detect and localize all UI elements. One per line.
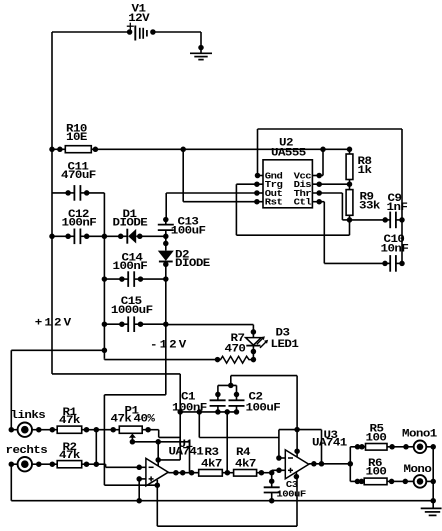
wire ground bottom run (11, 500, 433, 502)
svg-text:47k: 47k (59, 415, 80, 427)
wire R1 to sum (87, 429, 97, 431)
capacitor C11 470uF (52, 192, 68, 194)
capacitor C14 100nF (104, 278, 121, 280)
wire 555 Out to C13 (166, 192, 257, 194)
pin Rst (254, 199, 260, 205)
svg-text:470uF: 470uF (61, 170, 96, 182)
capacitor C10 10nF (382, 261, 388, 267)
svg-text:100: 100 (366, 466, 387, 478)
node links jack (9, 427, 15, 433)
pin Gnd (255, 173, 261, 179)
resistor R9 33k (349, 184, 351, 189)
pin Vcc (316, 173, 322, 179)
wire left cap column (103, 193, 105, 359)
wire battery right (153, 31, 201, 33)
wire 555 top rail (258, 128, 403, 130)
svg-text:33k: 33k (359, 200, 380, 212)
svg-text:links: links (11, 410, 46, 422)
svg-text:Mono1: Mono1 (402, 428, 437, 440)
resistor R1 47k (36, 427, 42, 433)
pin Ctl (316, 199, 322, 205)
resistor R6 100 (350, 480, 357, 482)
svg-text:UA741: UA741 (312, 437, 347, 449)
svg-text:100uF: 100uF (276, 489, 306, 499)
wire top rail riser (230, 376, 232, 386)
wire C15 row to LED (166, 324, 254, 326)
capacitor C2 100uF (234, 392, 240, 398)
wire gnd column to links jack (11, 349, 104, 351)
wire C1C2 top rail (218, 384, 237, 386)
wire P1 wiper feedback (132, 441, 189, 443)
wire links row staircase (148, 429, 159, 431)
svg-text:100uF: 100uF (171, 225, 206, 237)
wire U1 Vminus stub (155, 482, 161, 488)
svg-text:Rst: Rst (265, 197, 283, 207)
capacitor C3 100uF (271, 473, 273, 482)
pin Thr (316, 190, 322, 196)
wire battery left (52, 31, 130, 33)
svg-text:1k: 1k (358, 165, 372, 177)
ground bottom (430, 498, 436, 504)
capacitor C12 100nF (49, 234, 55, 240)
capacitor C9 1nF (350, 219, 386, 221)
capacitor C13 100uF (163, 217, 169, 223)
svg-text:4k7: 4k7 (201, 458, 222, 470)
svg-text:47k: 47k (59, 450, 80, 462)
node Mono jack (392, 480, 406, 482)
diode D2 (165, 236, 167, 243)
wire rechts gnd drop (10, 464, 12, 501)
wire 0V run to R7 (103, 358, 105, 361)
svg-text:Mono: Mono (404, 464, 432, 476)
svg-text:40%: 40% (134, 413, 155, 425)
wire U1 plus input (136, 476, 142, 482)
wire U3 output (309, 463, 351, 465)
wire R4 to U3 plus (261, 472, 271, 474)
wire Thr drop (341, 193, 343, 220)
svg-text:100uF: 100uF (246, 402, 281, 414)
node rechts jack (9, 461, 15, 467)
wire rail branch (198, 412, 200, 438)
battery V1 12V (134, 26, 136, 41)
wire C1C2 bottom rail (177, 409, 183, 415)
wire R9 to Trg loop (349, 220, 351, 235)
svg-text:R3: R3 (205, 447, 219, 459)
wire 555 right riser (401, 129, 403, 263)
svg-text:C3: C3 (286, 480, 298, 490)
wire -12V column (165, 264, 167, 395)
svg-text:1nF: 1nF (387, 202, 408, 214)
svg-text:DIODE: DIODE (175, 258, 210, 270)
wire Rst to rail (182, 149, 184, 201)
svg-text:LED1: LED1 (271, 339, 299, 351)
svg-text:D3: D3 (276, 327, 290, 339)
svg-text:10E: 10E (66, 132, 87, 144)
svg-text:100nF: 100nF (172, 402, 207, 414)
svg-text:Ctl: Ctl (294, 197, 312, 207)
wire Gnd riser (257, 129, 259, 176)
wire U1 output (168, 472, 198, 474)
op-amp U1 UA741 (146, 458, 168, 486)
potentiometer P1 47k 40% (119, 426, 142, 433)
resistor R10 10E (49, 147, 55, 153)
pin Trg (254, 181, 260, 187)
svg-text:UA555: UA555 (271, 147, 306, 159)
wire Vcc to rail (322, 149, 324, 175)
wire +12V left rail (51, 32, 53, 374)
wire C1C2 center drop (224, 409, 230, 415)
wire U1 V+ stub (157, 442, 159, 460)
svg-text:100: 100 (366, 432, 387, 444)
wire Mono gnd column (432, 447, 434, 502)
svg-text:4k7: 4k7 (235, 458, 256, 470)
LED D3 (252, 325, 254, 332)
wire R10 to 555 rail (95, 148, 349, 150)
capacitor C1 100nF (215, 392, 221, 398)
svg-text:DIODE: DIODE (113, 217, 148, 229)
svg-text:47k: 47k (111, 413, 132, 425)
svg-text:UA741: UA741 (169, 446, 204, 458)
diode D1 (104, 235, 120, 237)
op-amp U3 UA741 (285, 450, 309, 479)
svg-text:470: 470 (225, 343, 246, 355)
svg-text:rechts: rechts (6, 445, 48, 457)
resistor R7 470 (215, 357, 221, 363)
svg-text:-12V: -12V (150, 339, 188, 351)
svg-text:1000uF: 1000uF (111, 305, 153, 317)
node Mono1 jack (392, 446, 406, 448)
svg-text:+12V: +12V (35, 317, 73, 329)
svg-text:10nF: 10nF (381, 243, 409, 255)
resistor R4 4k7 (227, 472, 233, 474)
wire riser to U3 Vplus (296, 376, 298, 452)
resistor R3 4k7 (199, 470, 223, 477)
svg-text:100nF: 100nF (113, 261, 148, 273)
wire U3 minus feedback (276, 455, 282, 461)
wire Ctl to C10 (323, 202, 325, 264)
pin Dis (316, 181, 322, 187)
wire U3 Vminus stub (294, 474, 300, 480)
svg-text:12V: 12V (128, 13, 149, 25)
wire to ground (200, 32, 202, 48)
wire Trg loop (235, 184, 237, 235)
resistor R8 1k (347, 147, 353, 153)
resistor R5 100 (350, 446, 357, 448)
ground top (198, 45, 204, 51)
resistor R2 47k (36, 461, 42, 467)
op-amp U2 UA555 box (263, 160, 312, 208)
wire output column (349, 447, 351, 482)
wire -12V to opamps (104, 394, 165, 396)
wire +12V drop to rail (179, 374, 181, 460)
capacitor C15 1000uF (104, 323, 121, 325)
svg-text:100nF: 100nF (62, 217, 97, 229)
svg-text:R4: R4 (236, 447, 250, 459)
wire sum to U1 minus (87, 463, 97, 465)
wire sum vertical (95, 430, 97, 465)
pin Out (254, 190, 260, 196)
wire +12V bottom run (52, 373, 180, 375)
